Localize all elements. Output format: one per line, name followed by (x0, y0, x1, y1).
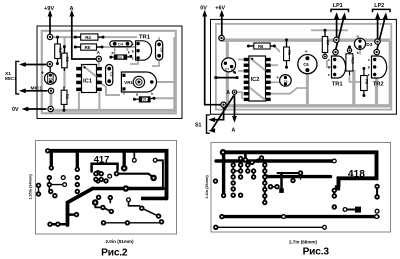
svg-text:0V: 0V (12, 107, 19, 113)
svg-text:TR1: TR1 (332, 82, 344, 88)
svg-text:2.0in (51mm): 2.0in (51mm) (105, 239, 134, 244)
svg-text:+: + (305, 49, 308, 54)
svg-text:LP1: LP1 (333, 3, 343, 9)
svg-text:418: 418 (348, 169, 365, 180)
svg-text:a: a (136, 92, 138, 96)
svg-text:R7: R7 (326, 40, 330, 45)
svg-text:A: A (70, 6, 74, 12)
svg-text:R8: R8 (365, 79, 369, 84)
svg-text:IC1: IC1 (83, 78, 93, 84)
svg-text:TR1: TR1 (139, 34, 151, 40)
svg-text:k: k (128, 51, 130, 55)
svg-text:IC2: IC2 (251, 77, 260, 83)
svg-text:+9V: +9V (44, 6, 54, 12)
svg-text:R6: R6 (258, 44, 264, 49)
svg-text:R1: R1 (58, 48, 63, 54)
svg-text:D1: D1 (143, 98, 147, 102)
svg-text:S1: S1 (195, 123, 201, 129)
svg-text:Рис.2: Рис.2 (101, 247, 128, 258)
svg-text:+6V: +6V (215, 5, 225, 11)
svg-text:C7: C7 (225, 68, 229, 72)
svg-text:D2: D2 (118, 55, 122, 59)
svg-text:b: b (132, 49, 134, 53)
svg-text:R3: R3 (65, 94, 70, 100)
svg-text:e: e (368, 73, 370, 77)
svg-text:1.35in (34mm): 1.35in (34mm) (29, 174, 33, 200)
svg-text:R10: R10 (350, 57, 354, 64)
svg-text:TR2: TR2 (373, 82, 384, 88)
svg-text:C6: C6 (303, 62, 309, 67)
svg-text:Рис.3: Рис.3 (303, 247, 330, 258)
svg-text:X1: X1 (5, 71, 11, 77)
svg-text:LP2: LP2 (374, 3, 384, 9)
svg-text:C5: C5 (284, 79, 288, 83)
svg-text:+: + (276, 75, 279, 80)
svg-text:A: A (226, 90, 230, 96)
svg-text:C6: C6 (159, 48, 163, 52)
svg-text:k: k (151, 92, 153, 96)
svg-text:+: + (41, 71, 44, 77)
svg-text:c: c (328, 58, 330, 62)
svg-text:c: c (132, 42, 134, 46)
svg-text:MIC1: MIC1 (5, 76, 17, 82)
svg-text:R4: R4 (85, 35, 91, 40)
svg-text:b: b (328, 66, 330, 70)
svg-text:R9: R9 (287, 50, 291, 55)
svg-text:2.7in (68mm): 2.7in (68mm) (289, 240, 318, 245)
svg-text:e: e (132, 57, 134, 61)
svg-text:a: a (357, 35, 359, 39)
svg-text:VR1: VR1 (124, 80, 133, 85)
svg-text:D3: D3 (366, 42, 372, 47)
svg-text:417: 417 (94, 153, 110, 164)
svg-text:C1: C1 (49, 77, 53, 81)
svg-text:e: e (328, 73, 330, 77)
svg-text:1.4in (36mm): 1.4in (36mm) (205, 175, 209, 199)
svg-text:R2: R2 (65, 57, 70, 63)
svg-text:R5: R5 (85, 45, 91, 50)
svg-text:MIC1: MIC1 (31, 86, 43, 92)
svg-text:0V: 0V (200, 5, 207, 11)
svg-text:c: c (368, 58, 370, 62)
svg-text:k: k (357, 51, 359, 55)
svg-text:b: b (368, 66, 370, 70)
svg-text:C2: C2 (110, 72, 114, 76)
svg-text:A: A (232, 128, 236, 134)
svg-text:a: a (112, 51, 114, 55)
